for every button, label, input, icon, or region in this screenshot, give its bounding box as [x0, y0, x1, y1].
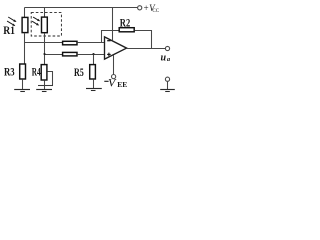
svg-text:R1: R1: [3, 25, 15, 37]
wire R4 bottom bus: [38, 85, 53, 87]
resistor R4: [41, 65, 47, 80]
dashed enclosure around photoresistor: [31, 13, 61, 36]
light arrow 2 on photo cell: [31, 20, 39, 26]
wire node B horizontal to lower summing resistor: [44, 54, 62, 56]
wire R4 ground stem: [44, 86, 46, 90]
wire R5 to ground: [93, 79, 95, 88]
wire photoresistor bottom drop to R4: [44, 33, 46, 64]
resistor lower input (horizontal): [63, 52, 77, 56]
svg-text:R4: R4: [32, 65, 41, 79]
ground under R5: [86, 89, 102, 91]
wire feedback riser: [102, 31, 119, 43]
op-amp inverting input mark: [107, 40, 110, 42]
op-amp U1 triangle: [105, 37, 127, 59]
resistor R2: [119, 28, 134, 32]
junction R5 tap: [93, 53, 95, 55]
wire lower resistor to non-inverting input: [77, 54, 104, 56]
wire node A horizontal to summing resistor: [24, 42, 62, 44]
light arrow 1 on R1: [8, 16, 18, 23]
svg-text:u: u: [161, 53, 167, 64]
light arrow 2 on R1: [6, 20, 16, 27]
svg-text:EE: EE: [117, 80, 127, 89]
wire R3 to ground: [22, 79, 24, 89]
svg-text:R3: R3: [4, 65, 15, 79]
resistor R3: [20, 64, 26, 79]
terminal output ua: [165, 46, 169, 50]
resistor R1 (photoresistor body): [22, 17, 28, 32]
resistor upper input (horizontal): [63, 41, 77, 45]
resistor photo cell in dashed box: [42, 17, 48, 33]
ground under R4: [36, 90, 52, 92]
svg-text:CC: CC: [152, 9, 159, 14]
resistor R5: [90, 65, 96, 79]
wire R5 top stub: [93, 55, 95, 65]
wire R1 top stub: [24, 8, 26, 18]
wire R4 wiper tap: [47, 72, 52, 86]
terminal output ground side: [165, 77, 169, 81]
junction node B: [44, 53, 46, 55]
wire negative supply pin: [113, 55, 115, 75]
terminal -VEE: [112, 75, 116, 79]
light arrow 1 on photo cell: [32, 16, 40, 22]
label -VEE: [104, 80, 108, 82]
wire positive supply pin: [112, 8, 114, 41]
wire top supply rail: [25, 7, 140, 9]
wire output ground stem: [167, 81, 169, 89]
wire upper resistor to inverting input: [77, 42, 104, 44]
wire op-amp output: [127, 48, 166, 50]
op-amp non-inverting input mark: [107, 53, 111, 57]
terminal +VCC: [138, 6, 142, 10]
svg-text:R5: R5: [74, 65, 84, 79]
wire R4 bottom: [44, 80, 46, 85]
wire R1 bottom drop to R3: [24, 33, 26, 64]
wire photoresistor top stub: [44, 8, 46, 17]
ground under R3: [14, 90, 30, 92]
svg-text:R2: R2: [120, 18, 131, 30]
ground under output terminal: [160, 90, 175, 92]
wire R2 to output node: [135, 31, 152, 49]
